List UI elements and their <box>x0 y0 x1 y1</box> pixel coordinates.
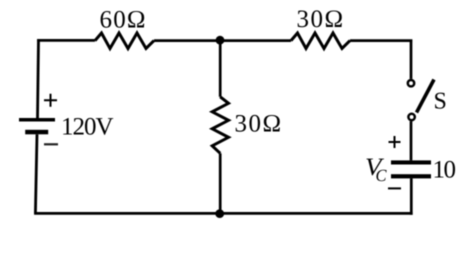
resistor 30Ω (top) zigzag <box>291 33 350 49</box>
wire: right segment between switch and capacitor <box>410 121 413 160</box>
svg-text:S: S <box>434 89 447 115</box>
wire: right-bottom segment below capacitor <box>34 178 413 215</box>
svg-text:60Ω: 60Ω <box>100 7 147 34</box>
label + (capacitor) <box>389 136 401 148</box>
wire: middle branch upper segment <box>219 41 222 97</box>
svg-text:10: 10 <box>433 157 456 184</box>
wire: middle branch lower segment <box>219 153 222 213</box>
wire: top-right horizontal segment <box>350 41 412 79</box>
battery V1 long plate <box>19 118 55 122</box>
wire: left branch upper segment <box>38 39 39 118</box>
label + (battery) <box>44 94 57 107</box>
resistor 60Ω zigzag <box>95 33 154 49</box>
switch S blade <box>417 80 435 113</box>
capacitor bottom plate <box>391 174 431 178</box>
label − (battery) <box>44 143 58 145</box>
battery V1 short plate <box>25 130 48 135</box>
capacitor top plate <box>391 160 431 164</box>
switch S bottom terminal <box>408 114 414 120</box>
svg-text:30Ω: 30Ω <box>297 6 345 33</box>
label − (capacitor) <box>388 187 401 189</box>
node A (top junction dot) <box>216 36 225 45</box>
resistor 30Ω (middle, vertical) zigzag <box>212 97 228 154</box>
svg-text:30Ω: 30Ω <box>235 111 283 138</box>
wire: left branch lower segment <box>35 134 37 214</box>
wire: top-left horizontal segment <box>37 39 95 42</box>
node B (bottom junction dot) <box>215 209 224 218</box>
wire: top middle segment <box>154 39 291 42</box>
svg-text:120V: 120V <box>61 114 114 141</box>
switch S top terminal <box>408 80 414 86</box>
svg-text:C: C <box>376 166 388 185</box>
